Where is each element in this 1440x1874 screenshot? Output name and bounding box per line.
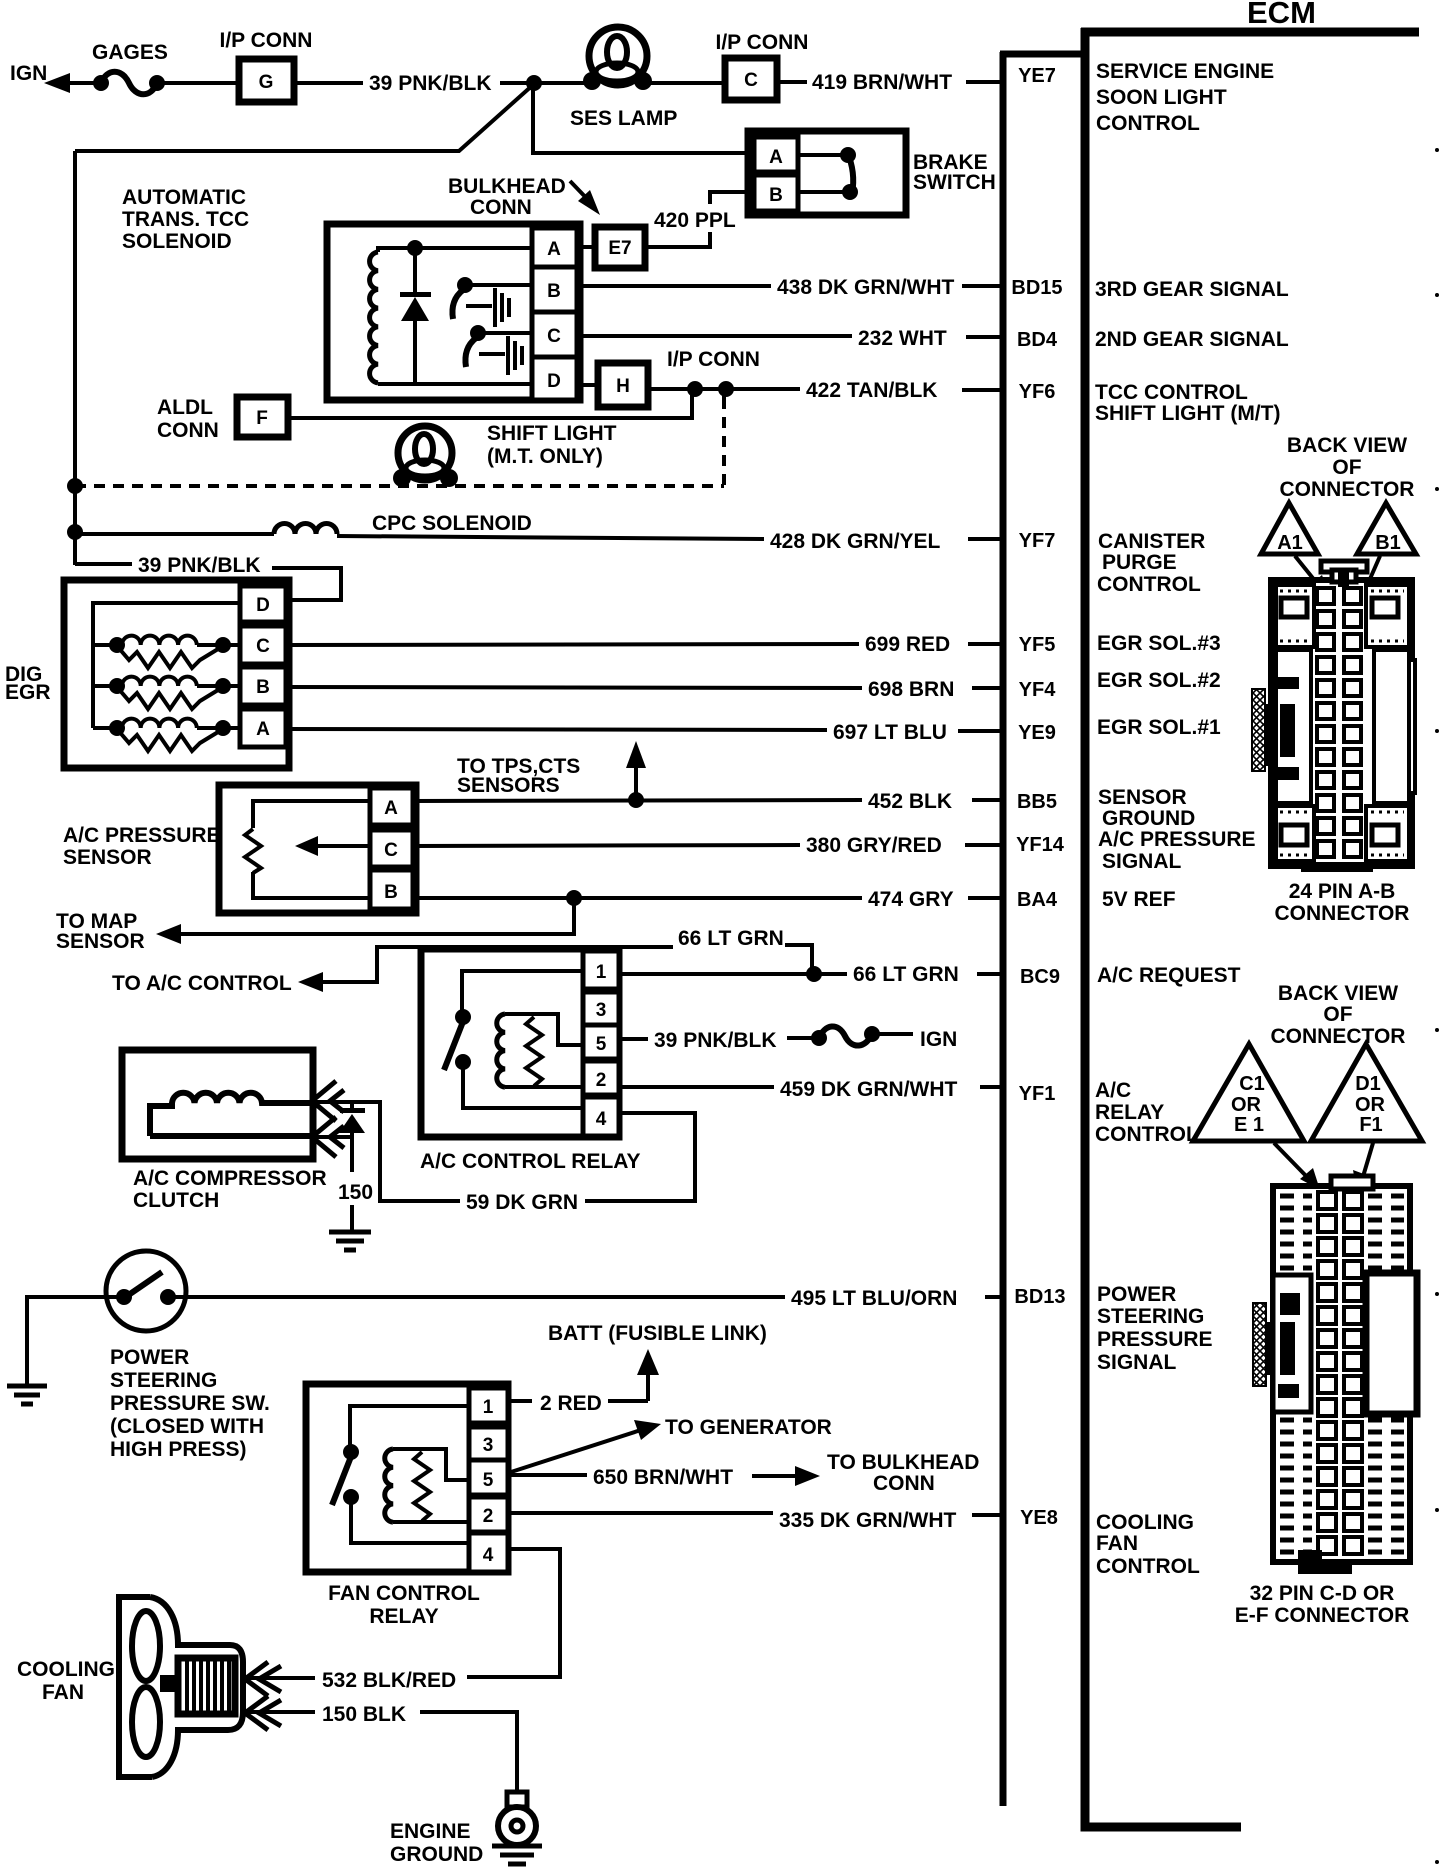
- svg-text:459 DK GRN/WHT: 459 DK GRN/WHT: [780, 1078, 958, 1101]
- svg-text:5V REF: 5V REF: [1102, 888, 1176, 911]
- wire lamp to connector C: [643, 81, 725, 85]
- svg-text:TO BULKHEAD: TO BULKHEAD: [827, 1451, 979, 1474]
- wire A1 arrow: [1295, 556, 1320, 587]
- wire 697 LT BLU to YE9: [286, 729, 827, 730]
- svg-text:PRESSURE: PRESSURE: [1097, 1328, 1213, 1351]
- triangle A1: [1261, 503, 1318, 554]
- svg-text:E-F CONNECTOR: E-F CONNECTOR: [1235, 1604, 1410, 1627]
- power steering pressure switch: [106, 1251, 186, 1331]
- wire 39 PNK/BLK into pin D: [272, 568, 341, 600]
- svg-text:B1: B1: [1375, 532, 1401, 554]
- svg-text:RELAY: RELAY: [369, 1605, 438, 1628]
- svg-text:2ND GEAR SIGNAL: 2ND GEAR SIGNAL: [1095, 328, 1289, 351]
- node left rail dashed: [67, 478, 83, 494]
- svg-text:BACK VIEW: BACK VIEW: [1287, 434, 1407, 457]
- wire pin D to H: [577, 383, 598, 387]
- triangle C1 OR E1: [1193, 1044, 1304, 1141]
- svg-text:E 1: E 1: [1234, 1114, 1264, 1136]
- svg-text:POWER: POWER: [1097, 1283, 1176, 1306]
- svg-text:232 WHT: 232 WHT: [858, 327, 947, 350]
- svg-text:OF: OF: [1332, 456, 1361, 479]
- svg-text:4: 4: [596, 1109, 607, 1130]
- svg-text:39 PNK/BLK: 39 PNK/BLK: [138, 554, 261, 577]
- svg-text:COOLING: COOLING: [17, 1658, 115, 1681]
- pin D: [532, 357, 577, 400]
- svg-text:D: D: [547, 371, 561, 392]
- svg-text:COOLING: COOLING: [1096, 1511, 1194, 1534]
- svg-text:A/C PRESSURE: A/C PRESSURE: [1098, 828, 1256, 851]
- svg-text:YF1: YF1: [1019, 1083, 1056, 1105]
- svg-text:4: 4: [483, 1545, 494, 1566]
- svg-text:BB5: BB5: [1017, 791, 1057, 813]
- svg-text:(M.T. ONLY): (M.T. ONLY): [487, 445, 603, 468]
- svg-text:TRANS. TCC: TRANS. TCC: [122, 208, 249, 231]
- node left rail CPC: [67, 524, 83, 540]
- svg-text:CONN: CONN: [157, 419, 219, 442]
- pin C: [370, 830, 413, 867]
- node 474 junction: [566, 890, 582, 906]
- pin B: [240, 667, 286, 705]
- wire B1 arrow: [1366, 556, 1380, 588]
- svg-text:I/P CONN: I/P CONN: [220, 29, 313, 52]
- wire coil top to pin A: [378, 248, 532, 252]
- connector chevrons fan 150: [245, 1696, 268, 1730]
- resistor pair EGR#1 (pin A): [93, 726, 112, 730]
- engine ground symbol: [507, 1792, 527, 1807]
- svg-text:B: B: [547, 281, 561, 302]
- svg-text:TCC CONTROL: TCC CONTROL: [1095, 381, 1248, 404]
- wire 380 GRY/RED to YF14: [413, 845, 800, 846]
- relay coil: [497, 1014, 505, 1087]
- svg-text:YE7: YE7: [1018, 65, 1056, 87]
- wire 699 RED to YF5: [286, 644, 859, 645]
- TCC solenoid box: [327, 224, 580, 400]
- pin 5: [469, 1460, 508, 1495]
- wire 66 LT GRN to BC9: [619, 972, 847, 976]
- svg-text:380 GRY/RED: 380 GRY/RED: [806, 834, 942, 857]
- svg-text:BD15: BD15: [1011, 277, 1062, 299]
- wire dashed tap: [722, 389, 726, 398]
- svg-text:SES LAMP: SES LAMP: [570, 107, 677, 130]
- svg-text:BD13: BD13: [1014, 1286, 1065, 1308]
- coil bottom to pin 2: [393, 1520, 469, 1524]
- svg-text:SOON LIGHT: SOON LIGHT: [1096, 86, 1227, 109]
- diode TCC: [413, 248, 417, 293]
- svg-text:150 BLK: 150 BLK: [322, 1703, 406, 1726]
- wire pin B to 438 DK GRN/WHT: [577, 284, 771, 288]
- svg-text:YF7: YF7: [1019, 530, 1056, 552]
- svg-text:452 BLK: 452 BLK: [868, 790, 952, 813]
- svg-text:A: A: [547, 239, 561, 260]
- svg-text:F: F: [256, 408, 268, 429]
- svg-text:IGN: IGN: [920, 1028, 957, 1051]
- svg-text:66 LT GRN: 66 LT GRN: [678, 927, 784, 950]
- connector chevrons clutch bottom: [312, 1117, 336, 1157]
- triangle B1: [1357, 503, 1416, 554]
- svg-text:ALDL: ALDL: [157, 396, 213, 419]
- wire IGN arrow: [44, 73, 70, 93]
- label TO BULKHEAD CONN with arrow: [752, 1474, 797, 1478]
- svg-text:E7: E7: [608, 238, 631, 259]
- svg-text:1: 1: [596, 962, 607, 983]
- wire 150 BLK: [248, 1710, 315, 1714]
- wire inner bus: [93, 603, 240, 728]
- wire pin 4 to 532 BLK/RED: [467, 1549, 560, 1677]
- wire junction to SES lamp: [534, 81, 592, 85]
- pin D: [240, 586, 286, 622]
- svg-text:A1: A1: [1277, 532, 1303, 554]
- wiper arrow: [312, 844, 370, 848]
- svg-text:HIGH PRESS): HIGH PRESS): [110, 1438, 247, 1461]
- svg-text:SERVICE ENGINE: SERVICE ENGINE: [1096, 60, 1274, 83]
- switch 2nd gear (to pin B): [457, 277, 473, 293]
- svg-text:C: C: [384, 840, 398, 861]
- svg-text:SHIFT LIGHT: SHIFT LIGHT: [487, 422, 617, 445]
- svg-text:PURGE: PURGE: [1102, 551, 1177, 574]
- svg-text:PRESSURE SW.: PRESSURE SW.: [110, 1392, 270, 1415]
- ECM pin column: [1000, 51, 1085, 58]
- right margin dots: [1435, 148, 1439, 152]
- svg-text:SWITCH: SWITCH: [913, 171, 996, 194]
- pin B: [532, 267, 577, 312]
- svg-text:B: B: [384, 882, 398, 903]
- coil bottom to pin 2: [505, 1085, 583, 1089]
- svg-text:D1: D1: [1355, 1073, 1381, 1095]
- wire pin A to E7: [577, 245, 595, 249]
- svg-text:B: B: [256, 677, 270, 698]
- svg-text:BATT (FUSIBLE LINK): BATT (FUSIBLE LINK): [548, 1322, 767, 1345]
- svg-text:BULKHEAD: BULKHEAD: [448, 175, 566, 198]
- wire brake B to 420 PPL: [710, 192, 754, 204]
- 24-pin connector body: [1271, 561, 1415, 872]
- ECM box: [1081, 28, 1419, 37]
- svg-text:335 DK GRN/WHT: 335 DK GRN/WHT: [779, 1509, 957, 1532]
- svg-text:GAGES: GAGES: [92, 41, 168, 64]
- svg-text:SIGNAL: SIGNAL: [1102, 850, 1182, 873]
- coil top to pin 5: [505, 1014, 583, 1045]
- svg-text:5: 5: [596, 1034, 607, 1055]
- lamp SHIFT LIGHT: [398, 426, 452, 480]
- svg-text:2: 2: [596, 1070, 607, 1091]
- svg-text:A/C REQUEST: A/C REQUEST: [1097, 964, 1241, 987]
- pin 2: [469, 1497, 508, 1532]
- 32-pin left module: [1273, 1275, 1311, 1412]
- wire pin 4 to 59 DK GRN: [585, 1113, 695, 1201]
- wire F to H junction: [288, 389, 692, 418]
- svg-text:G: G: [259, 72, 274, 93]
- svg-text:POWER: POWER: [110, 1346, 189, 1369]
- wire CPC left: [75, 532, 274, 536]
- svg-text:STEERING: STEERING: [110, 1369, 217, 1392]
- wire 532 BLK/RED: [248, 1676, 315, 1680]
- wire 495 LT BLU/ORN to BD13: [166, 1295, 785, 1299]
- DIG EGR box: [64, 580, 289, 768]
- svg-text:B: B: [769, 185, 783, 206]
- svg-text:D: D: [256, 595, 270, 616]
- coil top to pin 5: [393, 1449, 469, 1480]
- svg-text:420 PPL: 420 PPL: [654, 209, 736, 232]
- wire D1 arrow: [1362, 1143, 1373, 1180]
- svg-text:698 BRN: 698 BRN: [868, 678, 954, 701]
- pin 3: [583, 992, 619, 1025]
- cooling fan housing: [119, 1597, 243, 1777]
- svg-text:(CLOSED WITH: (CLOSED WITH: [110, 1415, 264, 1438]
- resistor sensor element: [245, 829, 261, 873]
- connector chevrons fan 532: [245, 1662, 268, 1696]
- svg-text:STEERING: STEERING: [1097, 1305, 1204, 1328]
- wire junction drop to brake switch A: [533, 83, 749, 153]
- svg-text:3: 3: [596, 1000, 607, 1021]
- svg-text:24 PIN A-B: 24 PIN A-B: [1289, 880, 1396, 903]
- pin C: [532, 312, 577, 357]
- wire left rail vertical: [73, 151, 77, 565]
- resistor pair EGR#2 (pin B): [93, 684, 112, 688]
- diode clutch: [340, 1108, 365, 1113]
- svg-text:532 BLK/RED: 532 BLK/RED: [322, 1669, 456, 1692]
- svg-text:438 DK GRN/WHT: 438 DK GRN/WHT: [777, 276, 955, 299]
- wire 335 DK GRN/WHT to YE8: [508, 1511, 773, 1515]
- svg-text:YF6: YF6: [1019, 381, 1056, 403]
- svg-text:OF: OF: [1323, 1003, 1352, 1026]
- wire coil bottom to pin D: [378, 382, 532, 386]
- node coil top: [407, 240, 423, 256]
- svg-text:SENSOR: SENSOR: [1098, 786, 1187, 809]
- svg-text:CLUTCH: CLUTCH: [133, 1189, 219, 1212]
- svg-text:C: C: [256, 636, 270, 657]
- pin 1: [469, 1388, 508, 1423]
- triangle D1 OR F1: [1311, 1044, 1422, 1141]
- wire 698 BRN to YF4: [286, 687, 862, 688]
- 32-pin right module: [1366, 1273, 1417, 1414]
- svg-text:2: 2: [483, 1506, 494, 1527]
- svg-text:YE8: YE8: [1020, 1507, 1058, 1529]
- wire switch to ground: [27, 1297, 124, 1385]
- fan blade bottom: [132, 1687, 160, 1757]
- switch 3rd gear (to pin C): [470, 325, 486, 341]
- relay switch: [350, 1406, 469, 1447]
- svg-text:A: A: [384, 798, 398, 819]
- pin 1: [583, 951, 619, 989]
- relay switch: [462, 971, 583, 1012]
- svg-text:419 BRN/WHT: 419 BRN/WHT: [812, 71, 952, 94]
- wire C1 arrow: [1274, 1143, 1310, 1180]
- pin 4: [469, 1533, 508, 1572]
- coil CPC SOLENOID: [274, 524, 337, 535]
- wire 474 GRY to BA4: [413, 896, 862, 900]
- 24-pin centre ladder: [1317, 588, 1361, 857]
- svg-text:CONN: CONN: [873, 1472, 935, 1495]
- svg-text:SOLENOID: SOLENOID: [122, 230, 232, 253]
- svg-text:FAN: FAN: [42, 1681, 84, 1704]
- fan shaft: [160, 1675, 179, 1692]
- svg-text:FAN CONTROL: FAN CONTROL: [328, 1582, 480, 1605]
- svg-text:CONTROL: CONTROL: [1096, 112, 1200, 135]
- svg-text:EGR: EGR: [5, 681, 51, 704]
- svg-text:697 LT BLU: 697 LT BLU: [833, 721, 947, 744]
- brake switch box: [748, 131, 906, 215]
- svg-text:CPC SOLENOID: CPC SOLENOID: [372, 512, 532, 535]
- svg-text:EGR SOL.#3: EGR SOL.#3: [1097, 632, 1221, 655]
- svg-text:CONN: CONN: [470, 196, 532, 219]
- svg-text:YF5: YF5: [1019, 634, 1056, 656]
- 32-pin centre ladder: [1318, 1192, 1362, 1554]
- wire 452 BLK to BB5: [413, 800, 862, 801]
- pin 2: [583, 1061, 619, 1095]
- svg-text:H: H: [616, 376, 630, 397]
- 24-pin hatched latch: [1252, 689, 1265, 771]
- svg-text:SENSORS: SENSORS: [457, 774, 560, 797]
- wire 428 DK GRN/YEL to YF7: [337, 536, 764, 539]
- svg-text:C: C: [744, 70, 758, 91]
- svg-text:I/P CONN: I/P CONN: [716, 31, 809, 54]
- A/C pressure sensor box: [219, 785, 416, 913]
- svg-text:BC9: BC9: [1020, 966, 1060, 988]
- TCC coil: [370, 252, 378, 383]
- svg-text:SENSOR: SENSOR: [63, 846, 152, 869]
- A/C control relay box: [421, 949, 619, 1137]
- clutch box: [122, 1050, 313, 1159]
- node dashed junction: [718, 381, 734, 397]
- fan blade top: [132, 1611, 160, 1681]
- svg-text:59 DK GRN: 59 DK GRN: [466, 1191, 578, 1214]
- pin A: [370, 788, 413, 825]
- svg-text:EGR SOL.#2: EGR SOL.#2: [1097, 669, 1221, 692]
- relay coil: [385, 1449, 393, 1522]
- ground clutch: [329, 1230, 371, 1235]
- node 452 junction: [628, 792, 644, 808]
- svg-text:CONTROL: CONTROL: [1095, 1123, 1199, 1146]
- pin 3: [469, 1427, 508, 1460]
- wire H to 422 TAN/BLK: [648, 387, 800, 391]
- wire junction diagonal to left rail: [75, 84, 534, 151]
- wire 650 BRN/WHT: [508, 1473, 587, 1477]
- pin 5: [583, 1025, 619, 1059]
- svg-text:YF14: YF14: [1016, 834, 1065, 856]
- ground power steering: [7, 1384, 47, 1389]
- wire clutch bottom to diode: [316, 1135, 352, 1139]
- svg-text:SHIFT LIGHT (M/T): SHIFT LIGHT (M/T): [1095, 402, 1280, 425]
- svg-text:3: 3: [483, 1435, 494, 1456]
- svg-text:2 RED: 2 RED: [540, 1392, 602, 1415]
- svg-text:CONTROL: CONTROL: [1096, 1555, 1200, 1578]
- svg-text:5: 5: [483, 1470, 494, 1491]
- svg-text:39 PNK/BLK: 39 PNK/BLK: [654, 1029, 777, 1052]
- svg-text:OR: OR: [1231, 1094, 1262, 1116]
- 32-pin bottom tab: [1298, 1550, 1352, 1574]
- fuse IGN: [811, 1030, 827, 1046]
- fan motor (hatched): [178, 1658, 235, 1714]
- 32-pin connector body: [1273, 1186, 1410, 1562]
- connector chevrons clutch top: [312, 1081, 336, 1121]
- svg-text:F1: F1: [1359, 1114, 1382, 1136]
- svg-text:A/C COMPRESSOR: A/C COMPRESSOR: [133, 1167, 327, 1190]
- pin A: [532, 228, 577, 267]
- wire 150 to ground: [350, 1133, 354, 1172]
- svg-text:422 TAN/BLK: 422 TAN/BLK: [806, 379, 937, 402]
- pin B: [370, 870, 413, 909]
- pin C: [240, 626, 286, 664]
- wire 459 DK GRN/WHT to YF1: [619, 1085, 774, 1089]
- svg-text:699 RED: 699 RED: [865, 633, 950, 656]
- svg-text:IGN: IGN: [10, 62, 47, 85]
- relay resistor: [414, 1452, 430, 1521]
- svg-text:YE9: YE9: [1018, 722, 1056, 744]
- svg-text:SENSOR: SENSOR: [56, 930, 145, 953]
- svg-text:ENGINE: ENGINE: [390, 1820, 471, 1843]
- svg-text:CANISTER: CANISTER: [1098, 530, 1205, 553]
- svg-text:BD4: BD4: [1017, 329, 1058, 351]
- svg-text:TO GENERATOR: TO GENERATOR: [665, 1416, 832, 1439]
- svg-text:650 BRN/WHT: 650 BRN/WHT: [593, 1466, 733, 1489]
- node F junction: [687, 381, 703, 397]
- svg-text:150: 150: [338, 1181, 373, 1204]
- relay resistor: [526, 1017, 542, 1086]
- svg-text:AUTOMATIC: AUTOMATIC: [122, 186, 246, 209]
- svg-text:A/C PRESSURE: A/C PRESSURE: [63, 824, 221, 847]
- svg-text:39 PNK/BLK: 39 PNK/BLK: [369, 72, 492, 95]
- svg-text:GROUND: GROUND: [1102, 807, 1195, 830]
- wire pin C to 232 WHT: [577, 334, 852, 338]
- svg-text:OR: OR: [1355, 1094, 1386, 1116]
- svg-text:C: C: [547, 326, 561, 347]
- svg-text:CONNECTOR: CONNECTOR: [1275, 902, 1410, 925]
- svg-text:66 LT GRN: 66 LT GRN: [853, 963, 959, 986]
- svg-text:A/C: A/C: [1095, 1079, 1131, 1102]
- connector E7 (bulkhead): [595, 227, 645, 268]
- lamp SES LAMP: [589, 27, 647, 85]
- clutch coil: [150, 1133, 313, 1139]
- fan control relay box: [306, 1384, 508, 1572]
- svg-text:BACK VIEW: BACK VIEW: [1278, 982, 1398, 1005]
- svg-text:CONTROL: CONTROL: [1097, 573, 1201, 596]
- svg-text:EGR SOL.#1: EGR SOL.#1: [1097, 716, 1221, 739]
- svg-text:CONNECTOR: CONNECTOR: [1271, 1025, 1406, 1048]
- wire fuse to G: [157, 81, 239, 85]
- wire 2 RED from pin 1: [508, 1399, 532, 1403]
- wire pin 5 to 39 PNK/BLK / IGN: [619, 1037, 648, 1041]
- svg-text:1: 1: [483, 1397, 494, 1418]
- svg-text:C1: C1: [1239, 1073, 1265, 1095]
- svg-text:SIGNAL: SIGNAL: [1097, 1351, 1177, 1374]
- svg-text:A/C CONTROL RELAY: A/C CONTROL RELAY: [420, 1150, 641, 1173]
- svg-text:495 LT BLU/ORN: 495 LT BLU/ORN: [791, 1287, 957, 1310]
- svg-text:CONNECTOR: CONNECTOR: [1280, 478, 1415, 501]
- wire left rail to 39 PNK/BLK (DIG EGR): [75, 564, 132, 565]
- svg-text:RELAY: RELAY: [1095, 1101, 1164, 1124]
- svg-text:YF4: YF4: [1019, 679, 1057, 701]
- svg-text:I/P CONN: I/P CONN: [667, 348, 760, 371]
- svg-text:A: A: [256, 719, 270, 740]
- svg-text:3RD GEAR SIGNAL: 3RD GEAR SIGNAL: [1095, 278, 1289, 301]
- node junction 39 PNK/BLK: [526, 75, 542, 91]
- svg-text:TO A/C CONTROL: TO A/C CONTROL: [112, 972, 292, 995]
- wire G to junction, label 39 PNK/BLK: [294, 81, 363, 85]
- resistor pair EGR#3 (pin C): [93, 643, 112, 647]
- 32-pin hatched latch: [1253, 1303, 1266, 1386]
- node 66 LT GRN junction: [806, 966, 822, 982]
- svg-text:GROUND: GROUND: [390, 1843, 483, 1866]
- svg-text:A: A: [769, 147, 783, 168]
- pin 4: [583, 1097, 619, 1136]
- pin A: [240, 709, 286, 747]
- svg-text:428 DK GRN/YEL: 428 DK GRN/YEL: [770, 530, 941, 553]
- wire E7 to 420 PPL corner: [645, 245, 710, 249]
- svg-text:474 GRY: 474 GRY: [868, 888, 954, 911]
- svg-text:ECM: ECM: [1247, 0, 1316, 30]
- svg-text:32 PIN C-D OR: 32 PIN C-D OR: [1250, 1582, 1395, 1605]
- label TO GENERATOR with arrow: [511, 1429, 644, 1472]
- wire 419 BRN/WHT to ECM pin YE7: [777, 80, 807, 84]
